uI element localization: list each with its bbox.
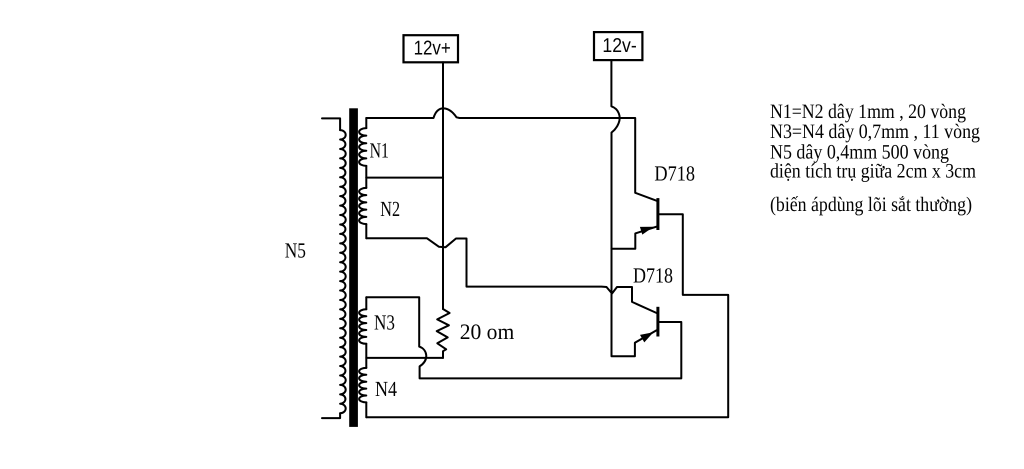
- svg-text:D718: D718: [654, 162, 695, 186]
- svg-text:12v+: 12v+: [414, 37, 451, 59]
- svg-text:N3=N4 dây 0,7mm , 11 vòng: N3=N4 dây 0,7mm , 11 vòng: [770, 121, 980, 143]
- svg-text:N1: N1: [370, 139, 389, 163]
- svg-text:12v-: 12v-: [602, 35, 636, 57]
- svg-text:N5: N5: [285, 239, 306, 263]
- svg-text:N1=N2 dây 1mm , 20 vòng: N1=N2 dây 1mm , 20 vòng: [770, 101, 966, 123]
- svg-text:D718: D718: [633, 264, 673, 288]
- svg-text:diện tích trụ giữa 2cm x 3cm: diện tích trụ giữa 2cm x 3cm: [770, 160, 976, 182]
- svg-text:20 om: 20 om: [460, 319, 515, 344]
- svg-text:N2: N2: [380, 197, 400, 221]
- svg-text:N4: N4: [375, 377, 397, 401]
- svg-text:(biến ápdùng lõi sắt thường): (biến ápdùng lõi sắt thường): [770, 194, 972, 216]
- svg-text:N3: N3: [374, 311, 395, 335]
